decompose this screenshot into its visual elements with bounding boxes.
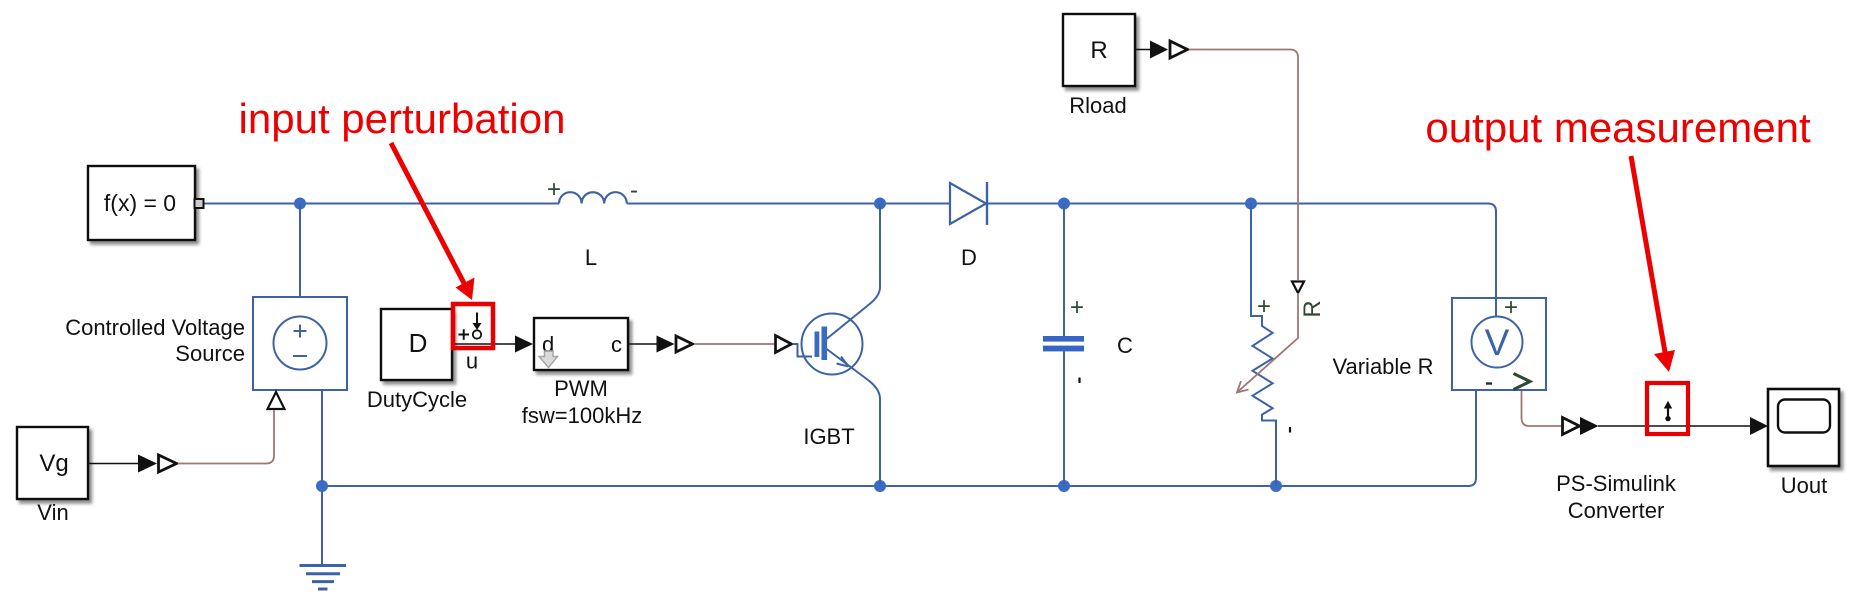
diode D1 <box>950 183 986 224</box>
wire physical signal PWM to IGBT <box>694 343 774 345</box>
wire physical signal sensor to converter <box>1522 391 1564 426</box>
wire top rail middle segment <box>627 203 950 205</box>
V sensor minus tick <box>1486 382 1492 384</box>
gray update arrow <box>539 351 558 368</box>
ground <box>300 566 347 590</box>
emitter arrowhead <box>837 357 849 367</box>
svg-text:L: L <box>585 245 597 270</box>
node ground junction <box>316 480 328 492</box>
block D DutyCycle constant <box>381 309 452 380</box>
svg-text:+: + <box>1257 293 1271 320</box>
wire CVS top branch <box>299 204 301 298</box>
wire Rload output <box>1135 49 1152 51</box>
wire converter to scope <box>1598 425 1751 427</box>
node resistor bottom junction <box>1270 480 1282 492</box>
svg-text:Rload: Rload <box>1069 93 1126 118</box>
resistor minus tick <box>1289 427 1291 433</box>
red highlight box input perturbation <box>453 304 493 348</box>
svg-text:IGBT: IGBT <box>803 424 854 449</box>
node IGBT emitter junction <box>874 480 886 492</box>
port square of f(x)=0 <box>195 199 204 208</box>
node top-left junction <box>294 198 306 210</box>
emitter wire <box>824 347 880 486</box>
arrow filled after PWM <box>657 336 675 353</box>
svg-text:V: V <box>1485 322 1510 363</box>
arrow filled into scope <box>1750 417 1768 435</box>
wire top rail right segment <box>987 204 1496 318</box>
controlled voltage source U1 <box>253 297 347 390</box>
PS adder unconnected port circle <box>473 330 481 338</box>
wire physical signal into resistor arrow <box>1238 293 1299 392</box>
arrow hollow after PWM <box>676 336 693 352</box>
svg-text:C: C <box>1117 333 1133 358</box>
svg-text:f(x) = 0: f(x) = 0 <box>104 190 176 216</box>
PS adder symbol plus <box>459 329 470 339</box>
PS adder down arrow <box>476 313 478 326</box>
output measurement marker dot-arrow <box>1667 407 1669 416</box>
block Rload constant <box>1063 14 1135 86</box>
svg-text:c: c <box>611 332 622 357</box>
capacitor C1 top wire <box>1063 204 1065 337</box>
wire D to PWM through adder <box>452 343 515 345</box>
variable resistor R2 <box>1251 204 1276 487</box>
svg-text:+: + <box>1504 294 1518 321</box>
node capacitor top junction <box>1058 198 1070 210</box>
arrow filled into PWM <box>515 336 533 353</box>
svg-text:+: + <box>1070 294 1084 321</box>
IGBT gate bars <box>815 332 820 358</box>
svg-text:output measurement: output measurement <box>1425 104 1811 151</box>
svg-text:D: D <box>409 328 428 358</box>
arrow hollow at IGBT gate <box>776 336 792 353</box>
capacitor minus tick <box>1078 378 1080 384</box>
IGBT Q1 <box>793 204 881 487</box>
svg-text:Vin: Vin <box>37 500 68 525</box>
svg-text:Uout: Uout <box>1781 473 1827 498</box>
svg-text:R: R <box>1090 37 1107 64</box>
svg-text:R: R <box>1299 300 1326 317</box>
voltage sensor block <box>1452 298 1546 390</box>
wire bottom rail <box>322 367 1497 566</box>
wire top rail left segment <box>203 203 559 205</box>
arrow filled Rload <box>1150 41 1168 59</box>
svg-text:DutyCycle: DutyCycle <box>367 387 467 412</box>
CVS input port triangle <box>268 392 285 409</box>
V sensor wire inside <box>1495 298 1497 317</box>
diode cathode bar <box>986 182 988 225</box>
block Uout scope <box>1768 389 1839 466</box>
wire PWM c output <box>628 343 658 345</box>
arrow filled Vg <box>138 455 157 473</box>
gate wire <box>793 344 813 357</box>
arrow hollow Rload <box>1170 41 1188 58</box>
R input port triangle <box>1292 282 1304 294</box>
block Vg constant <box>17 427 88 499</box>
V sensor output chevron <box>1514 374 1531 390</box>
svg-text:D: D <box>961 245 977 270</box>
svg-text:Variable R: Variable R <box>1332 354 1433 379</box>
svg-text:Controlled Voltage: Controlled Voltage <box>65 315 245 340</box>
svg-text:Vg: Vg <box>39 450 68 477</box>
annotation arrow output measurement <box>1631 156 1666 358</box>
wire physical signal Vg to CVS <box>178 410 274 464</box>
svg-text:+: + <box>547 176 561 203</box>
red highlight box output measurement <box>1647 383 1688 434</box>
svg-text:input perturbation: input perturbation <box>239 95 566 142</box>
svg-text:Converter: Converter <box>1568 498 1665 523</box>
svg-text:Source: Source <box>175 341 245 366</box>
inductor L1 <box>559 192 627 203</box>
svg-text:fsw=100kHz: fsw=100kHz <box>522 403 642 428</box>
block f(x)=0 solver <box>88 166 195 240</box>
svg-text:PS-Simulink: PS-Simulink <box>1556 471 1677 496</box>
capacitor plates <box>1043 336 1084 342</box>
arrow filled PS converter <box>1580 417 1599 435</box>
wire Vg output <box>88 463 139 465</box>
node IGBT collector junction <box>874 198 886 210</box>
capacitor bottom wire <box>1063 351 1065 486</box>
annotation arrow input perturbation <box>391 143 466 287</box>
arrow hollow Vg <box>159 455 177 472</box>
node capacitor bottom junction <box>1058 480 1070 492</box>
svg-text:u: u <box>466 349 478 374</box>
block PWM <box>534 318 628 370</box>
node resistor top junction <box>1245 198 1257 210</box>
collector wire <box>824 204 880 342</box>
svg-text:PWM: PWM <box>554 376 608 401</box>
svg-text:-: - <box>630 177 638 204</box>
IGBT circle <box>802 314 863 375</box>
arrow hollow PS converter <box>1563 418 1580 435</box>
wire physical signal Rload to resistor <box>1189 50 1298 281</box>
